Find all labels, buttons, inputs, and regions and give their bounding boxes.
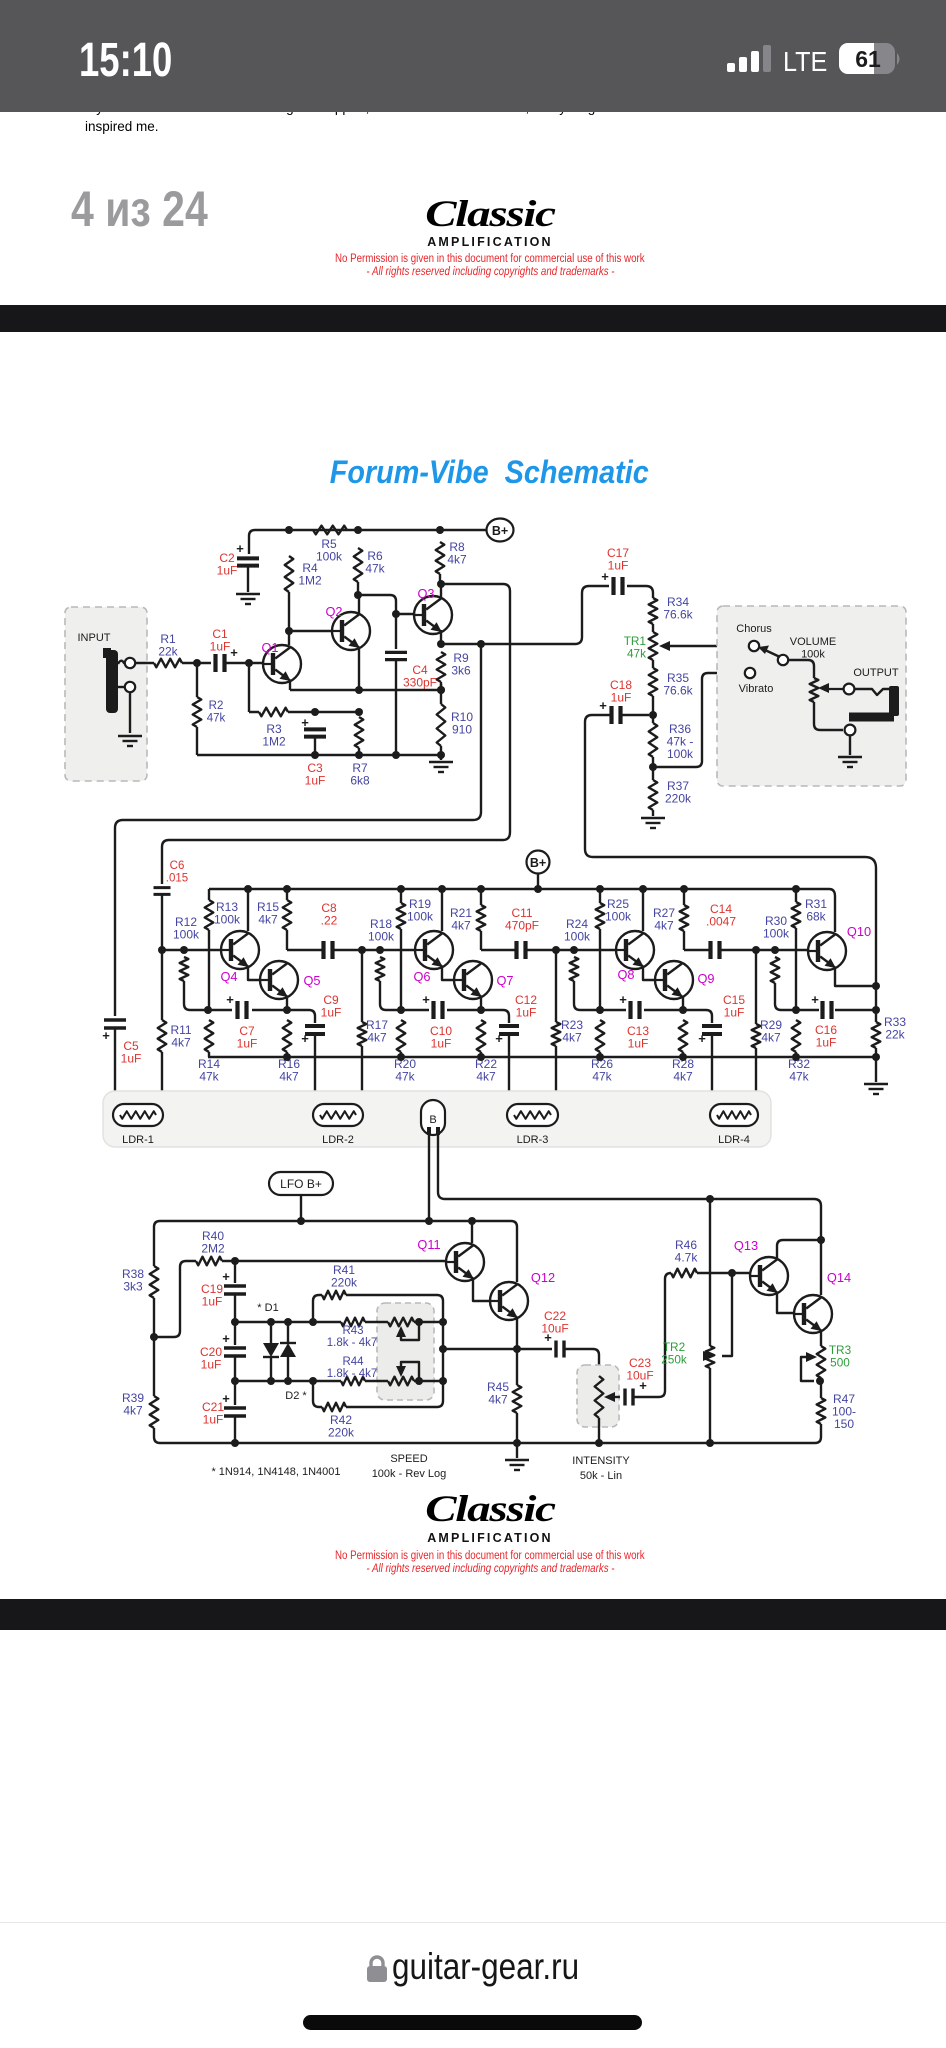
svg-text:220k: 220k xyxy=(665,792,692,806)
svg-text:4k7: 4k7 xyxy=(258,913,278,927)
svg-text:.22: .22 xyxy=(321,914,338,928)
svg-text:1uF: 1uF xyxy=(816,1036,837,1050)
svg-text:Q1: Q1 xyxy=(261,640,278,655)
svg-text:B: B xyxy=(429,1114,436,1126)
svg-text:+: + xyxy=(222,1269,230,1284)
svg-text:1uF: 1uF xyxy=(203,1413,224,1427)
svg-text:+: + xyxy=(599,698,607,713)
svg-text:OUTPUT: OUTPUT xyxy=(853,667,899,679)
svg-text:Q14: Q14 xyxy=(827,1270,851,1285)
svg-text:+: + xyxy=(226,992,234,1007)
svg-text:R2: R2 xyxy=(209,700,224,712)
svg-text:220k: 220k xyxy=(328,1426,355,1440)
svg-text:Q3: Q3 xyxy=(417,586,434,601)
svg-text:LDR-2: LDR-2 xyxy=(322,1134,354,1146)
svg-text:4k7: 4k7 xyxy=(279,1070,299,1084)
svg-text:1uF: 1uF xyxy=(217,564,238,578)
svg-text:R43: R43 xyxy=(342,1325,363,1337)
svg-text:+: + xyxy=(230,645,238,660)
svg-text:4k7: 4k7 xyxy=(367,1031,387,1045)
svg-text:Vibrato: Vibrato xyxy=(739,683,774,695)
svg-text:2M2: 2M2 xyxy=(201,1242,225,1256)
svg-text:Q6: Q6 xyxy=(413,969,430,984)
svg-text:22k: 22k xyxy=(158,645,178,659)
svg-text:SPEED: SPEED xyxy=(390,1453,427,1465)
svg-text:6k8: 6k8 xyxy=(350,774,370,788)
svg-text:1uF: 1uF xyxy=(201,1358,222,1372)
svg-text:4k7: 4k7 xyxy=(476,1070,496,1084)
svg-text:+: + xyxy=(102,1028,110,1043)
svg-text:1uF: 1uF xyxy=(431,1037,452,1051)
svg-text:47k: 47k xyxy=(395,1070,415,1084)
svg-text:C6: C6 xyxy=(170,860,185,872)
svg-text:47k: 47k xyxy=(199,1070,219,1084)
svg-text:+: + xyxy=(222,1331,230,1346)
svg-text:1uF: 1uF xyxy=(210,640,231,654)
svg-text:Chorus: Chorus xyxy=(736,623,772,635)
svg-text:LFO B+: LFO B+ xyxy=(280,1177,322,1191)
svg-text:4k7: 4k7 xyxy=(654,919,674,933)
svg-text:100k: 100k xyxy=(605,910,632,924)
svg-text:47k: 47k xyxy=(627,647,646,661)
svg-text:76.6k: 76.6k xyxy=(663,684,693,698)
svg-text:1M2: 1M2 xyxy=(262,735,286,749)
svg-text:INPUT: INPUT xyxy=(78,632,111,644)
svg-text:Q2: Q2 xyxy=(325,604,342,619)
svg-text:3k6: 3k6 xyxy=(451,664,471,678)
svg-text:500: 500 xyxy=(830,1356,850,1370)
svg-text:R44: R44 xyxy=(342,1356,364,1368)
svg-text:Q4: Q4 xyxy=(220,969,237,984)
svg-text:+: + xyxy=(601,569,609,584)
svg-text:330pF: 330pF xyxy=(403,676,437,690)
svg-text:LDR-3: LDR-3 xyxy=(517,1134,549,1146)
svg-text:Q7: Q7 xyxy=(496,973,513,988)
svg-text:1uF: 1uF xyxy=(724,1006,745,1020)
svg-text:Q9: Q9 xyxy=(697,971,714,986)
svg-text:+: + xyxy=(619,992,627,1007)
svg-text:1uF: 1uF xyxy=(121,1052,142,1066)
svg-text:4k7: 4k7 xyxy=(488,1393,508,1407)
svg-text:B+: B+ xyxy=(530,856,546,870)
svg-text:Q13: Q13 xyxy=(734,1238,758,1253)
svg-text:+: + xyxy=(301,1031,309,1046)
svg-text:1uF: 1uF xyxy=(516,1006,537,1020)
svg-text:+: + xyxy=(236,541,244,556)
svg-text:+: + xyxy=(422,992,430,1007)
svg-text:47k: 47k xyxy=(592,1070,612,1084)
svg-text:D2 *: D2 * xyxy=(285,1390,307,1402)
svg-text:100k - Rev Log: 100k - Rev Log xyxy=(372,1468,447,1480)
svg-text:1.8k - 4k7: 1.8k - 4k7 xyxy=(327,1337,378,1349)
svg-text:100k: 100k xyxy=(173,928,200,942)
svg-text:+: + xyxy=(495,1031,503,1046)
svg-text:100k: 100k xyxy=(368,930,395,944)
svg-text:50k - Lin: 50k - Lin xyxy=(580,1470,622,1482)
svg-text:B+: B+ xyxy=(492,524,508,538)
svg-text:4k7: 4k7 xyxy=(447,553,467,567)
svg-text:68k: 68k xyxy=(806,910,826,924)
svg-text:100k: 100k xyxy=(667,747,694,761)
svg-text:Q10: Q10 xyxy=(847,924,871,939)
svg-text:Q5: Q5 xyxy=(303,973,320,988)
svg-text:100k: 100k xyxy=(564,930,591,944)
svg-text:1uF: 1uF xyxy=(321,1006,342,1020)
svg-text:100k: 100k xyxy=(407,910,434,924)
svg-text:* 1N914, 1N4148, 1N4001: * 1N914, 1N4148, 1N4001 xyxy=(211,1466,340,1478)
svg-text:100k: 100k xyxy=(214,913,241,927)
svg-text:4k7: 4k7 xyxy=(562,1031,582,1045)
svg-text:+: + xyxy=(698,1031,706,1046)
svg-text:250k: 250k xyxy=(661,1353,687,1367)
svg-text:1uF: 1uF xyxy=(628,1037,649,1051)
svg-text:LDR-4: LDR-4 xyxy=(718,1134,750,1146)
svg-text:10uF: 10uF xyxy=(541,1322,568,1336)
svg-text:1uF: 1uF xyxy=(305,774,326,788)
svg-text:1uF: 1uF xyxy=(237,1037,258,1051)
svg-text:LDR-1: LDR-1 xyxy=(122,1134,154,1146)
svg-text:.0047: .0047 xyxy=(706,915,736,929)
svg-text:Q12: Q12 xyxy=(531,1270,555,1285)
svg-text:Q8: Q8 xyxy=(617,967,634,982)
svg-text:+: + xyxy=(301,715,309,730)
svg-text:+: + xyxy=(811,992,819,1007)
svg-text:47k: 47k xyxy=(207,713,226,725)
svg-text:.015: .015 xyxy=(166,873,188,885)
svg-text:76.6k: 76.6k xyxy=(663,608,693,622)
svg-text:22k: 22k xyxy=(885,1028,905,1042)
svg-text:100k: 100k xyxy=(801,649,825,661)
svg-text:61: 61 xyxy=(855,46,881,72)
svg-text:4k7: 4k7 xyxy=(123,1404,143,1418)
svg-text:470pF: 470pF xyxy=(505,919,539,933)
svg-text:Q11: Q11 xyxy=(417,1237,440,1252)
svg-text:47k: 47k xyxy=(365,562,385,576)
svg-text:1uF: 1uF xyxy=(202,1295,223,1309)
svg-text:1.8k - 4k7: 1.8k - 4k7 xyxy=(327,1368,378,1380)
svg-text:1uF: 1uF xyxy=(608,559,629,573)
svg-text:910: 910 xyxy=(452,723,472,737)
svg-text:4.7k: 4.7k xyxy=(675,1251,699,1265)
svg-text:VOLUME: VOLUME xyxy=(790,636,836,648)
svg-text:150: 150 xyxy=(834,1417,854,1431)
svg-text:INTENSITY: INTENSITY xyxy=(572,1455,630,1467)
svg-text:4k7: 4k7 xyxy=(171,1036,191,1050)
svg-text:3k3: 3k3 xyxy=(123,1280,143,1294)
svg-text:4k7: 4k7 xyxy=(673,1070,693,1084)
svg-text:* D1: * D1 xyxy=(257,1302,278,1314)
svg-text:4k7: 4k7 xyxy=(451,919,471,933)
svg-text:100k: 100k xyxy=(316,550,343,564)
svg-text:10uF: 10uF xyxy=(626,1369,653,1383)
svg-text:220k: 220k xyxy=(331,1276,358,1290)
svg-text:47k: 47k xyxy=(789,1070,809,1084)
svg-text:4k7: 4k7 xyxy=(761,1031,781,1045)
svg-text:1uF: 1uF xyxy=(611,691,632,705)
svg-text:1M2: 1M2 xyxy=(298,574,322,588)
svg-text:100k: 100k xyxy=(763,927,790,941)
